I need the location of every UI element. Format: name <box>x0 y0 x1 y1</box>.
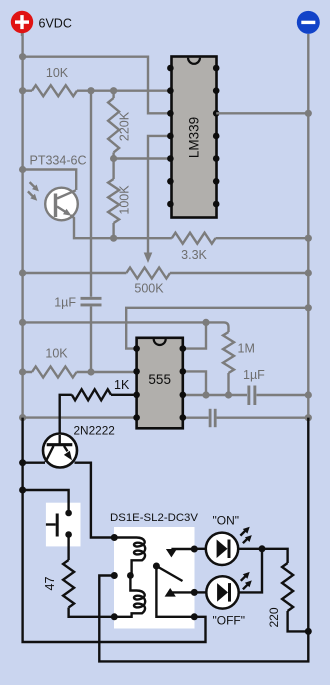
node junction rail collector <box>19 459 26 466</box>
node junction left rail 500K <box>19 269 26 276</box>
node relay coil tap junction <box>127 572 134 579</box>
svg-text:2N2222: 2N2222 <box>74 424 115 438</box>
terminal positive 6VDC <box>11 11 33 36</box>
resistor R6 1M <box>223 332 234 395</box>
resistor R4 3.3K <box>114 233 309 244</box>
wire line A 555 pin8 to right rail <box>126 308 308 349</box>
svg-text:10K: 10K <box>45 347 68 361</box>
node junction line B branch <box>202 319 209 326</box>
wire collector of phototransistor <box>23 170 77 191</box>
svg-text:100K: 100K <box>118 185 132 215</box>
resistor R2 220K <box>108 91 119 159</box>
relay contact top (NC) <box>166 549 177 557</box>
svg-text:"ON": "ON" <box>213 514 240 528</box>
node junction left rail line B <box>19 319 26 326</box>
LED D2 light arrows <box>241 572 252 589</box>
svg-text:555: 555 <box>148 372 171 387</box>
wire 555 pin1 net with cap C3 <box>183 417 308 419</box>
node junction R2 branch y395 <box>202 391 209 398</box>
relay contact bottom (NO) <box>165 588 176 597</box>
node junction right rail line A <box>305 304 312 311</box>
node junction left rail y56.7 <box>19 53 26 60</box>
svg-text:1µF: 1µF <box>54 296 76 310</box>
transistor Q2 2N2222 <box>43 434 77 468</box>
node junction cap bottom 10K wire <box>87 368 94 375</box>
node junction right rail y395 <box>305 391 312 398</box>
svg-text:DS1E-SL2-DC3V: DS1E-SL2-DC3V <box>110 512 198 524</box>
capacitor C1 1uF <box>54 91 101 372</box>
node junction right rail 3.3K <box>305 235 312 242</box>
relay coil 2 <box>114 576 145 617</box>
wire left rail to 555 pin4 <box>23 416 137 418</box>
svg-text:220: 220 <box>267 607 281 627</box>
resistor R7 10K <box>23 367 137 378</box>
node junction 1M bottom <box>225 391 232 398</box>
wire left rail black section <box>23 418 206 642</box>
wire line B branch to 555 pin6 <box>183 322 206 395</box>
node junction left rail y90.7 <box>19 87 26 94</box>
node junction LED cathodes <box>259 545 266 552</box>
svg-text:PT334-6C: PT334-6C <box>30 154 87 168</box>
svg-text:6VDC: 6VDC <box>39 17 72 31</box>
node junction right rail y113.3 <box>305 110 312 117</box>
LED D1 ON <box>194 533 287 565</box>
phototransistor Q1 PT334-6C <box>45 188 78 221</box>
svg-text:1µF: 1µF <box>243 368 265 382</box>
node junction cap branch y90.7 <box>87 87 94 94</box>
relay pins left <box>111 534 118 541</box>
wire right supply rail (gray) <box>307 34 309 418</box>
wire 220K bottom to LM339 pin5 <box>114 157 171 159</box>
node junction left rail y417.6 <box>19 414 26 421</box>
relay armature <box>156 566 182 581</box>
relay K1 white pad <box>114 527 195 629</box>
node junction left rail 10K <box>19 368 26 375</box>
IC U2 555 <box>133 338 186 429</box>
svg-text:10K: 10K <box>46 66 69 80</box>
node junction right rail 500K <box>305 269 312 276</box>
svg-text:1M: 1M <box>238 342 255 356</box>
node junction left rail y169.5 <box>19 166 26 173</box>
resistor R3 100K <box>108 159 119 239</box>
resistor R10 220 (black) <box>282 563 308 631</box>
wire emitter of phototransistor to 100K bottom <box>71 215 114 238</box>
wire LM339 right pin3 to right rail <box>216 112 308 114</box>
node relay pivot <box>153 563 160 570</box>
node junction rail pushbutton <box>19 487 26 494</box>
wire line B threshold net <box>23 322 229 332</box>
node junction right rail y417.7 <box>305 414 312 421</box>
pushbutton S1 <box>46 510 72 538</box>
pins right <box>213 65 220 72</box>
light arrows into phototransistor <box>28 182 39 201</box>
LED D1 light arrows <box>240 527 251 544</box>
LED D2 OFF <box>194 549 262 609</box>
pins left <box>167 65 174 72</box>
node junction 220K/100K <box>110 155 117 162</box>
svg-text:LM339: LM339 <box>187 117 202 158</box>
capacitor C2 1uF <box>243 368 265 405</box>
wire coil tap to bottom loop <box>99 418 308 662</box>
relay pins right <box>191 546 198 553</box>
wire LM339 pin4 to 500K wiper <box>148 136 170 253</box>
wire emitter to relay coil pin <box>75 463 115 538</box>
wire pushbutton to 47 resistor <box>67 535 69 561</box>
wire collector to left rail <box>23 462 45 464</box>
svg-text:220K: 220K <box>118 111 132 141</box>
resistor R9 47 (black) <box>63 560 114 617</box>
resistor R8 1K (black) <box>60 389 137 434</box>
svg-text:"OFF": "OFF" <box>213 614 246 628</box>
potentiometer R5 500K <box>23 268 309 279</box>
svg-text:3.3K: 3.3K <box>181 248 207 262</box>
relay coil 1 <box>114 538 145 576</box>
wire 555 pin2 net with cap C2 <box>183 394 308 396</box>
resistor R1 10K <box>23 85 171 96</box>
wire left supply rail (gray) <box>21 33 23 418</box>
wiper arrowhead <box>144 253 153 264</box>
svg-text:47: 47 <box>43 577 57 591</box>
node junction 220 to right rail <box>305 628 312 635</box>
wire top rail to LM339 pin3 <box>23 57 171 114</box>
svg-text:1K: 1K <box>114 378 130 392</box>
IC U1 LM339 <box>167 57 219 218</box>
node junction 220K top <box>110 87 117 94</box>
pushbutton S1 white pad <box>46 503 81 547</box>
node junction 100K bottom <box>110 235 117 242</box>
terminal negative <box>297 11 320 34</box>
wire rail to pushbutton <box>23 490 69 513</box>
capacitor C3 <box>209 409 217 427</box>
svg-text:500K: 500K <box>134 282 164 296</box>
